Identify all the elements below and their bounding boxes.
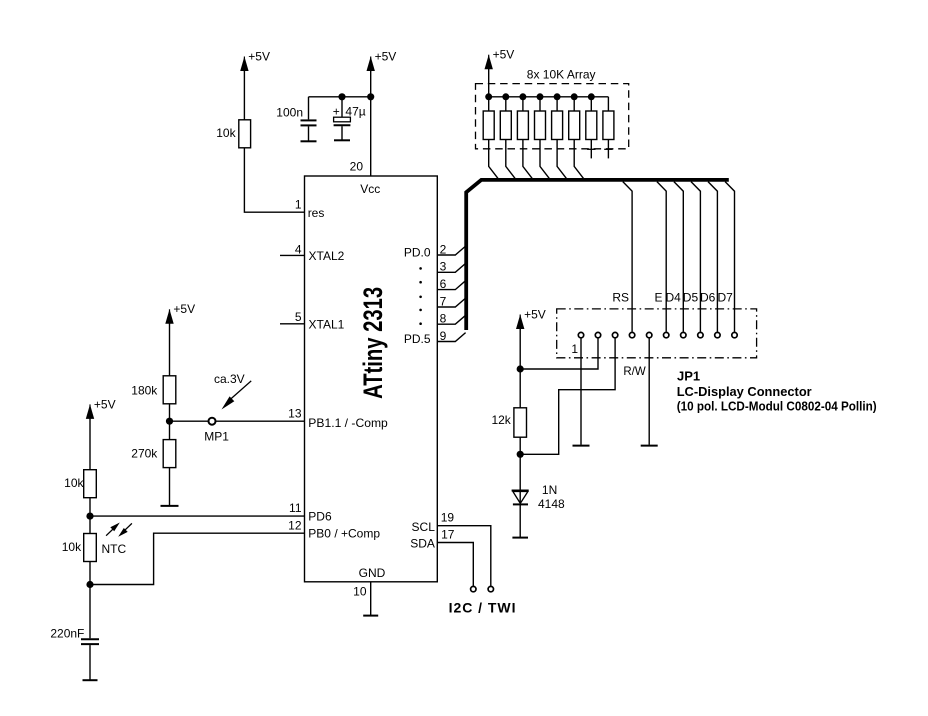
svg-text:MP1: MP1 <box>204 430 229 444</box>
svg-text:ATtiny 2313: ATtiny 2313 <box>358 287 388 399</box>
svg-text:PD6: PD6 <box>308 510 332 524</box>
svg-text:JP1: JP1 <box>677 368 700 383</box>
svg-text:GND: GND <box>359 566 386 580</box>
svg-text:XTAL2: XTAL2 <box>309 249 345 263</box>
svg-text:10: 10 <box>353 585 367 599</box>
svg-text:LC-Display Connector: LC-Display Connector <box>677 384 812 399</box>
svg-text:3: 3 <box>440 260 447 274</box>
svg-text:E: E <box>654 291 662 305</box>
svg-text:PB0 / +Comp: PB0 / +Comp <box>308 527 380 541</box>
svg-text:2: 2 <box>440 242 447 256</box>
svg-text:PD.0: PD.0 <box>404 245 431 259</box>
svg-text:12k: 12k <box>491 413 511 427</box>
svg-text:(10 pol. LCD-Modul C0802-04 Po: (10 pol. LCD-Modul C0802-04 Pollin) <box>677 399 877 414</box>
svg-text:17: 17 <box>441 528 455 542</box>
svg-text:8x 10K Array: 8x 10K Array <box>527 68 596 82</box>
svg-text:D7: D7 <box>718 291 734 305</box>
svg-text:SCL: SCL <box>412 520 436 534</box>
svg-text:I2C / TWI: I2C / TWI <box>449 599 516 615</box>
svg-text:Vcc: Vcc <box>360 182 380 196</box>
svg-text:11: 11 <box>289 501 302 515</box>
svg-text:RS: RS <box>612 291 629 305</box>
svg-text:10k: 10k <box>62 540 82 554</box>
svg-text:PB1.1 / -Comp: PB1.1 / -Comp <box>308 416 388 430</box>
svg-text:+5V: +5V <box>375 49 397 63</box>
svg-text:1: 1 <box>295 198 302 212</box>
svg-text:res: res <box>308 206 325 220</box>
svg-text:47µ: 47µ <box>345 105 365 119</box>
svg-text:D4: D4 <box>666 291 682 305</box>
svg-text:D5: D5 <box>683 291 699 305</box>
svg-text:D6: D6 <box>700 291 716 305</box>
svg-text:XTAL1: XTAL1 <box>309 318 345 332</box>
svg-text:+5V: +5V <box>248 49 270 63</box>
svg-text:9: 9 <box>440 329 447 343</box>
svg-text:+: + <box>333 105 340 119</box>
svg-text:4: 4 <box>295 242 302 256</box>
svg-text:220nF: 220nF <box>50 627 84 641</box>
svg-text:10k: 10k <box>64 476 84 490</box>
svg-text:1: 1 <box>571 342 578 356</box>
svg-text:180k: 180k <box>131 384 158 398</box>
svg-text:19: 19 <box>441 511 455 525</box>
svg-text:6: 6 <box>440 277 447 291</box>
svg-text:+5V: +5V <box>173 302 195 316</box>
svg-text:R/W: R/W <box>623 364 646 378</box>
svg-text:100n: 100n <box>276 106 303 120</box>
svg-text:12: 12 <box>288 519 302 533</box>
svg-text:270k: 270k <box>131 447 158 461</box>
svg-text:+5V: +5V <box>524 307 546 321</box>
svg-text:PD.5: PD.5 <box>404 332 431 346</box>
svg-text:1N: 1N <box>542 483 557 497</box>
svg-text:SDA: SDA <box>410 537 435 551</box>
svg-text:20: 20 <box>350 160 364 174</box>
svg-text:13: 13 <box>288 406 302 420</box>
svg-text:ca.3V: ca.3V <box>214 372 245 386</box>
svg-text:5: 5 <box>295 310 302 324</box>
svg-text:10k: 10k <box>216 126 236 140</box>
svg-text:NTC: NTC <box>102 542 127 556</box>
svg-text:+5V: +5V <box>94 397 116 411</box>
svg-text:8: 8 <box>440 312 447 326</box>
svg-text:+5V: +5V <box>493 48 515 62</box>
svg-text:7: 7 <box>440 294 447 308</box>
svg-text:4148: 4148 <box>538 497 565 511</box>
